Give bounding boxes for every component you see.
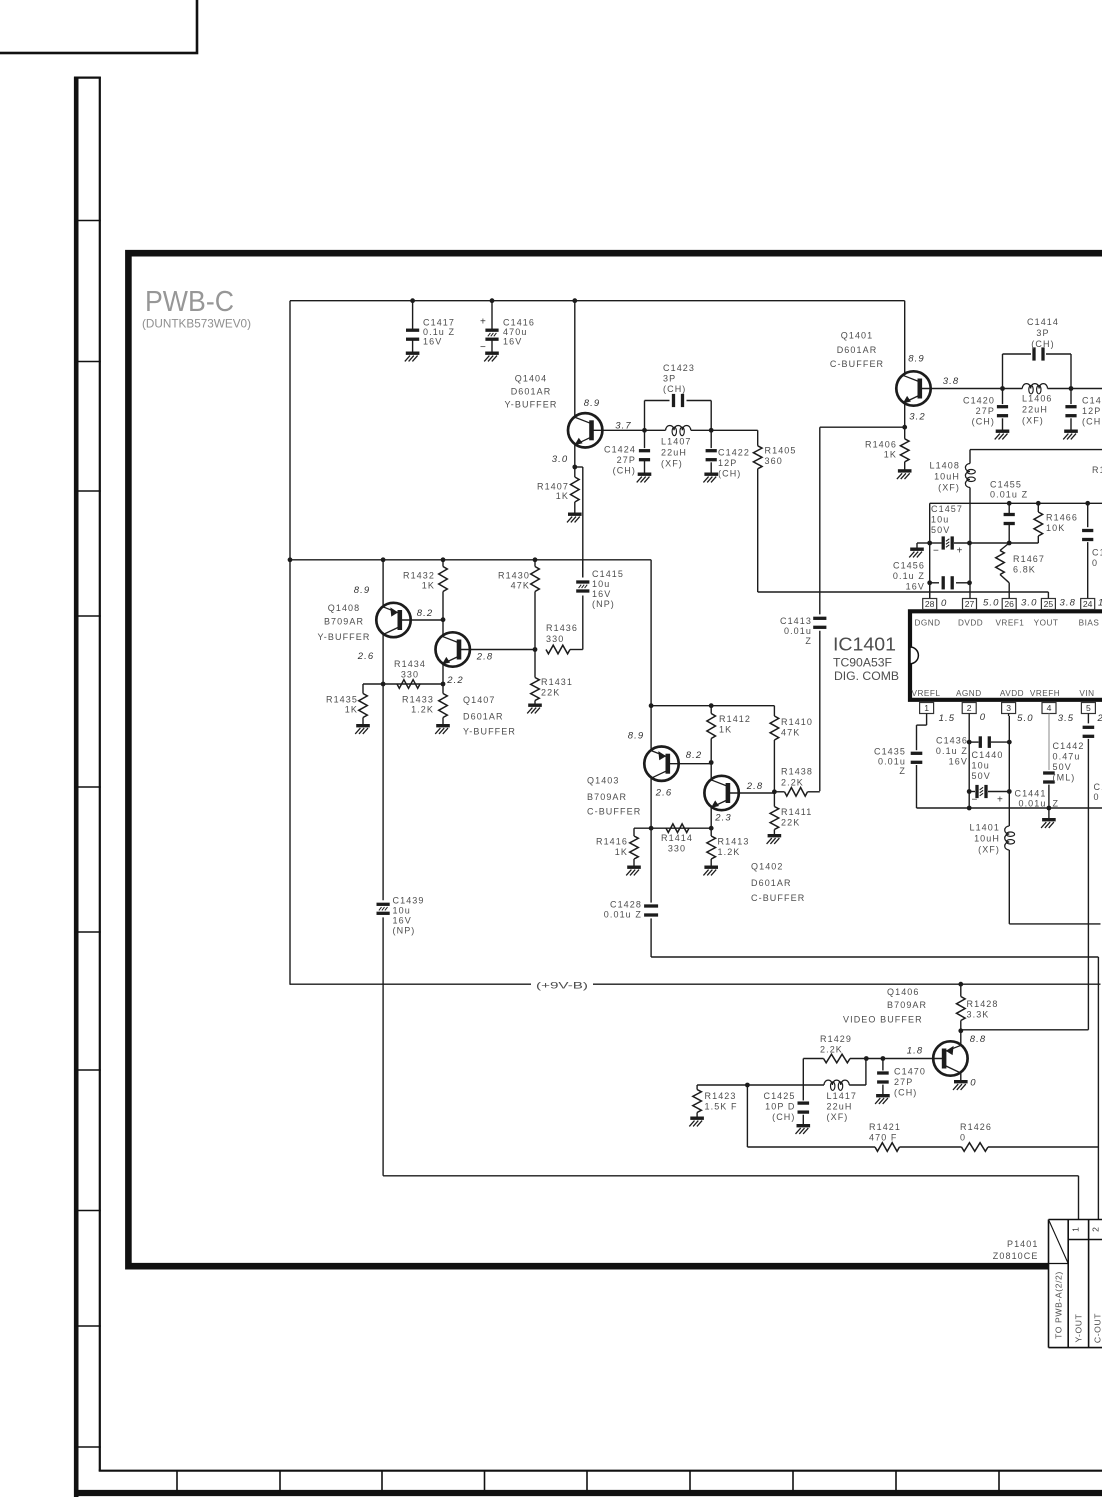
svg-text:R1428: R1428 [967,999,999,1009]
wire Q1407 emitter down [442,663,444,684]
ground under C1417 [406,352,420,355]
wire C1414 bridge [1002,354,1004,389]
ground under C1424 [638,473,652,476]
wire Q1403 base lead [668,763,711,765]
svg-text:VREFH: VREFH [1030,689,1060,698]
ground under Q1406 [954,1080,968,1083]
junction base row / C1470 [881,1056,886,1061]
svg-text:(CH): (CH) [894,1088,917,1098]
pin 26 box [1002,599,1016,610]
resistor R1429 [850,1058,866,1060]
svg-text:(CH): (CH) [972,417,995,427]
resistor R1412 [710,706,712,714]
svg-text:2.3: 2.3 [714,813,732,824]
svg-text:3.3K: 3.3K [967,1010,990,1020]
wire Q1404 collector feed [574,301,576,418]
svg-text:(CH: (CH [1082,417,1101,427]
junction rail / left bus [288,557,293,562]
svg-text:1: 1 [924,703,929,713]
svg-text:VIN: VIN [1079,689,1094,698]
svg-text:(CH): (CH) [772,1112,795,1122]
resistor R1410 [773,706,775,716]
svg-text:Z: Z [1053,799,1060,809]
svg-text:C1413: C1413 [780,616,812,626]
wire Q1407 collector feed [442,620,444,637]
svg-text:(DUNTKB573WEV0): (DUNTKB573WEV0) [142,317,251,331]
resistor R1411 [773,792,775,807]
capacitor C1420 [1002,389,1004,405]
svg-text:C-OUT: C-OUT [1093,1313,1102,1343]
wire Q1408 collector long column [382,684,384,900]
pin 2 box [962,703,976,714]
svg-text:25: 25 [1044,599,1054,609]
capacitor C1439 [377,903,390,906]
ground under C1470 [876,1094,890,1097]
capacitor C1455 [1008,503,1010,514]
svg-text:0.47u: 0.47u [1053,752,1081,762]
wire Q1406 top feed [960,1031,962,1046]
svg-text:D601AR: D601AR [511,387,552,397]
svg-text:1.5: 1.5 [939,713,956,724]
svg-text:(XF): (XF) [1022,416,1044,426]
svg-text:R1421: R1421 [869,1122,901,1132]
svg-text:Y-BUFFER: Y-BUFFER [463,727,516,737]
resistor R1407 [574,467,576,477]
node 3.0 [572,465,577,470]
svg-text:8.9: 8.9 [908,354,925,365]
wire 2.6 row [363,683,443,685]
svg-text:10P D: 10P D [765,1102,795,1112]
svg-text:2: 2 [1097,713,1102,724]
svg-text:C-BUFFER: C-BUFFER [587,807,641,817]
svg-text:R1430: R1430 [498,571,530,581]
svg-text:0.01u Z: 0.01u Z [990,490,1028,500]
pin 27 box [963,599,977,610]
wire R1429 left riser [802,1059,804,1086]
ground under C1421 [1064,430,1078,433]
wire pin1 to C1435 [926,714,928,726]
frame top-left reference box [0,0,197,53]
svg-text:R1416: R1416 [596,837,628,847]
junction collector line / C1420 [1000,386,1005,391]
transistor Q1406 [933,1041,967,1075]
pin 1 box [920,703,934,714]
svg-text:C14: C14 [1082,396,1102,406]
capacitor C1416 [491,301,493,331]
wire pin5 VIN column [1087,714,1089,724]
svg-text:(CH): (CH) [613,466,636,476]
svg-text:(CH): (CH) [718,469,741,479]
wire output row [747,1146,875,1148]
svg-text:0.1u Z: 0.1u Z [893,571,925,581]
svg-text:Y-BUFFER: Y-BUFFER [505,400,558,410]
transistor Q1401 [896,371,930,405]
svg-text:L1407: L1407 [661,437,692,447]
svg-text:22uH: 22uH [1022,405,1048,415]
wire 3.0 node branch to C1415 column [575,466,583,468]
svg-text:DIG. COMB: DIG. COMB [834,671,899,683]
svg-text:(XF): (XF) [661,459,683,469]
svg-text:C-BUFFER: C-BUFFER [751,893,805,903]
junction top rail / C1416 [490,298,495,303]
pin 25 box [1041,599,1055,610]
transistor Q1404 [568,413,602,447]
IC1401 body outline [910,611,1102,700]
resistor R1466 [1037,503,1039,512]
wire base row to R1429-L1417 node [866,1058,883,1060]
capacitor C1458 on BIAS (clipped label) [1082,529,1093,532]
ground under R1416 [627,866,641,869]
wire pin26 feed [1008,583,1010,599]
svg-text:L1417: L1417 [827,1091,858,1101]
wire 705 row [651,705,774,707]
inductor L1407 [645,429,666,431]
svg-text:−: − [972,795,979,806]
ground under R1407 [568,513,582,516]
pin 24 box [1081,599,1095,610]
junction collector line / C1421 [1069,386,1074,391]
ground under R1406 [898,469,912,472]
wire L1408 column [969,450,971,464]
wire pin28 feed [929,583,931,599]
svg-text:3.5: 3.5 [1058,713,1075,724]
svg-text:(NP): (NP) [592,599,615,609]
svg-text:0: 0 [1094,792,1100,802]
svg-text:R1426: R1426 [960,1122,992,1132]
svg-text:16V: 16V [592,589,611,599]
svg-text:1: 1 [1098,598,1102,609]
capacitor C1457 [942,536,945,549]
svg-text:0.01u: 0.01u [878,757,906,767]
svg-text:10u: 10u [393,906,411,916]
wire pin24 feed [1087,503,1089,527]
svg-text:3.0: 3.0 [1021,598,1038,609]
svg-text:10K: 10K [1046,523,1065,533]
svg-text:8.9: 8.9 [354,585,371,596]
node 8.2 Q1403 [709,760,714,765]
node 2.2 [441,682,446,687]
svg-text:VREF1: VREF1 [995,619,1024,628]
wire output row down from 1082 row [746,1085,748,1147]
svg-text:330: 330 [668,844,686,854]
svg-text:P1401: P1401 [1007,1239,1039,1249]
svg-text:C1435: C1435 [874,747,906,757]
capacitor C1423 [672,394,675,407]
svg-text:(XF): (XF) [938,483,960,493]
junction row543 / C1457 minus [927,541,932,546]
capacitor C1413 [813,617,826,620]
PWB-C board outline box [128,253,1102,1266]
wire DVDD decoupling row [930,542,942,544]
connector P1401 diagonal [1049,1220,1069,1264]
ground under C1420 [996,430,1010,433]
resistor R1426 [962,1143,989,1152]
wire Q1403 emitter feed [650,706,652,751]
svg-text:+: + [480,317,487,328]
transistor Q1408 [376,603,410,637]
svg-text:27P: 27P [617,455,636,465]
svg-text:330: 330 [546,634,564,644]
svg-text:330: 330 [401,670,419,680]
svg-text:50V: 50V [972,771,991,781]
connector P1401 outline [1049,1219,1102,1221]
svg-text:D601AR: D601AR [837,345,878,355]
svg-text:R1431: R1431 [541,677,573,687]
svg-text:C1470: C1470 [894,1067,926,1077]
svg-text:R1466: R1466 [1046,513,1078,523]
svg-text:YOUT: YOUT [1034,619,1059,628]
svg-text:C1442: C1442 [1053,741,1085,751]
svg-text:Q1408: Q1408 [328,603,361,613]
svg-text:10uH: 10uH [934,472,960,482]
wire Q1401 emitter [904,403,906,427]
svg-text:D601AR: D601AR [751,878,792,888]
svg-text:L1401: L1401 [969,823,1000,833]
transistor Q1407 [436,632,470,666]
wire pin2 column [968,714,970,809]
capacitor C1441 [1043,771,1055,774]
junction pin3 / C1436 [1007,740,1012,745]
svg-text:5.0: 5.0 [1017,713,1034,724]
node 3.2 [902,425,907,430]
svg-text:1.2K: 1.2K [718,847,741,857]
wire Q1402 collector feed [710,763,712,781]
svg-text:1K: 1K [556,491,569,501]
svg-text:C1414: C1414 [1027,317,1059,327]
wire 8.9 rail [290,559,651,561]
wire pin4 feed (thin) [1048,714,1050,771]
capacitor C1440 [969,791,975,793]
svg-text:10u: 10u [931,515,949,525]
svg-text:L1406: L1406 [1022,394,1053,404]
svg-text:VIDEO BUFFER: VIDEO BUFFER [843,1015,923,1025]
frame left zone bar [74,77,79,1497]
svg-text:Q1403: Q1403 [587,776,620,786]
wire Q1403 collector down [650,778,652,828]
svg-text:DVDD: DVDD [958,619,983,628]
junction pin3 / C1440 [1007,789,1012,794]
pin 4 box [1042,703,1056,714]
wire left vertical bus [289,301,291,985]
svg-text:C1: C1 [1094,782,1102,792]
frame bottom ruler [99,1470,1102,1472]
svg-text:C1436: C1436 [936,736,968,746]
svg-text:B709AR: B709AR [324,617,364,627]
inductor L1417 [824,1080,849,1085]
svg-text:1K: 1K [884,450,897,460]
svg-text:C1456: C1456 [893,561,925,571]
svg-text:28: 28 [925,599,935,609]
svg-text:50V: 50V [931,525,950,535]
junction 1082 row / pin feed [745,1083,750,1088]
svg-text:C1457: C1457 [931,504,963,514]
ground under R1413 [704,866,718,869]
svg-text:10uH: 10uH [974,834,1000,844]
svg-text:8.2: 8.2 [686,750,703,761]
junction row543 / R1467 [1007,541,1012,546]
resistor R1435 [362,684,364,694]
svg-text:0: 0 [980,712,986,723]
svg-text:2.8: 2.8 [746,781,764,792]
junction row543 / DVDD column [967,541,972,546]
svg-text:16V: 16V [503,337,522,347]
svg-text:L1408: L1408 [929,461,960,471]
svg-text:C1423: C1423 [663,363,695,373]
resistor R1421 [875,1143,900,1152]
ground at C1457 minus node [917,542,930,544]
capacitor C1428 [644,904,658,907]
wire VIN link to Q1406 output [961,1029,1089,1031]
svg-text:1.5K F: 1.5K F [705,1102,738,1112]
ground under R1433 [436,724,450,727]
svg-text:Q1406: Q1406 [887,987,920,997]
svg-text:IC1401: IC1401 [833,634,896,655]
svg-text:C1422: C1422 [718,448,750,458]
ground under C1441 node [1048,808,1050,819]
svg-text:R1405: R1405 [765,446,797,456]
svg-text:22K: 22K [541,688,560,698]
svg-text:470u: 470u [503,327,527,337]
svg-text:22uH: 22uH [661,448,687,458]
junction +9V rail / R1428 [958,982,963,987]
svg-text:8.8: 8.8 [970,1034,987,1045]
wire chroma line to P1401 pin1 [383,1175,1078,1177]
ground under C1416 [485,352,499,355]
capacitor C1424 [644,430,646,448]
junction top rail / Q1404 collector [572,298,577,303]
wire 2.3 row [634,827,711,829]
svg-text:R1406: R1406 [865,440,897,450]
svg-text:VREFL: VREFL [912,689,941,698]
svg-text:8.9: 8.9 [628,731,645,742]
junction agnd rail / C1441 [1047,806,1052,811]
svg-text:Z: Z [805,636,812,646]
resistor R1423 [696,1085,698,1090]
resistor R1431 [534,650,536,678]
transistor Q1402 [704,776,738,810]
svg-text:27: 27 [965,599,975,609]
svg-text:0.01u: 0.01u [784,626,812,636]
capacitor C1421 [1070,389,1072,405]
svg-text:26: 26 [1004,599,1014,609]
resistor R1414 [666,824,689,833]
svg-text:R1: R1 [1092,465,1102,475]
wire Q1407 base lead right [459,649,535,651]
wire C1456 row [930,582,939,584]
svg-text:C1416: C1416 [503,318,535,328]
wire video line to P1401 pin2 column [651,956,1098,958]
transistor Q1403 [644,747,678,781]
svg-text:C1441: C1441 [1014,789,1046,799]
svg-text:C1424: C1424 [604,445,636,455]
svg-text:AGND: AGND [956,689,982,698]
wire 3.2 node left to C1413 column [820,426,905,428]
junction pin2 / C1440 [967,789,972,794]
node L1407 left junction [642,428,647,433]
junction 2.3 row / Q1402 emitter [709,826,714,831]
ground under R1423 [690,1116,704,1119]
svg-text:3P: 3P [1036,328,1049,338]
svg-text:360: 360 [765,456,783,466]
svg-text:3: 3 [1006,703,1011,713]
wire L1417 row [697,1084,747,1086]
svg-text:(+9V-B): (+9V-B) [536,981,588,992]
svg-text:R1413: R1413 [718,837,750,847]
capacitor C1415 [582,560,584,578]
wire Q1408 base lead [400,619,443,621]
wire Q1401 collector out right [920,388,1003,390]
junction 2.3 row / Q1403 collector [649,826,654,831]
svg-text:10u: 10u [592,579,610,589]
svg-text:C1439: C1439 [393,896,425,906]
junction DGND rail / R1466 [1036,501,1041,506]
svg-text:24: 24 [1083,599,1093,609]
junction DGND rail / pin24 branch [1085,501,1090,506]
junction row583 right [967,580,972,585]
svg-text:C1417: C1417 [423,318,455,328]
svg-text:16V: 16V [393,916,412,926]
svg-text:C1: C1 [1092,548,1102,558]
svg-text:16V: 16V [423,337,442,347]
svg-text:R1467: R1467 [1013,554,1045,564]
svg-text:2.8: 2.8 [476,652,494,663]
svg-text:1K: 1K [719,725,732,735]
svg-text:C1425: C1425 [763,1091,795,1101]
svg-text:Y-OUT: Y-OUT [1074,1313,1084,1342]
svg-text:0: 0 [970,1078,976,1089]
node 2.8 Q1402 [772,789,777,794]
resistor R1416 [633,828,635,836]
svg-text:3.8: 3.8 [943,376,960,387]
svg-text:C1420: C1420 [963,396,995,406]
svg-text:R1433: R1433 [402,695,434,705]
pin 3 box [1002,703,1016,714]
svg-text:0: 0 [941,598,947,609]
svg-text:16V: 16V [906,582,925,592]
svg-text:R1435: R1435 [326,695,358,705]
resistor R1428 [960,984,962,996]
svg-text:R1429: R1429 [820,1034,852,1044]
pin 5 box [1081,703,1095,714]
svg-text:R1436: R1436 [546,623,578,633]
resistor R1434 [397,680,420,689]
svg-text:8.2: 8.2 [417,608,434,619]
capacitor C1435 [911,752,923,755]
svg-text:Z0810CE: Z0810CE [993,1251,1039,1261]
svg-text:R1411: R1411 [781,807,812,817]
resistor R1405 [753,446,762,469]
wire Q1408 collector down [382,634,384,684]
svg-text:(XF): (XF) [978,845,1000,855]
junction rail / R1430 [533,557,538,562]
svg-text:8.9: 8.9 [584,398,601,409]
svg-text:(NP): (NP) [393,926,416,936]
ground under C1425 [797,1124,811,1127]
svg-text:D601AR: D601AR [463,712,504,722]
wire DGND rail [930,502,1102,504]
capacitor C1436 [969,741,978,743]
wire Q1408 emitter feed [382,560,384,607]
svg-text:+: + [997,795,1004,806]
svg-text:Y-BUFFER: Y-BUFFER [318,632,371,642]
junction agnd rail / pin2 column [967,806,972,811]
svg-text:2: 2 [967,703,972,713]
resistor R1433 [442,684,444,694]
svg-text:2.6: 2.6 [357,651,375,662]
wire +9V-B rail [290,983,1101,985]
junction DGND rail / C1455 [1007,501,1012,506]
wire Q1402 base lead right [728,792,775,794]
